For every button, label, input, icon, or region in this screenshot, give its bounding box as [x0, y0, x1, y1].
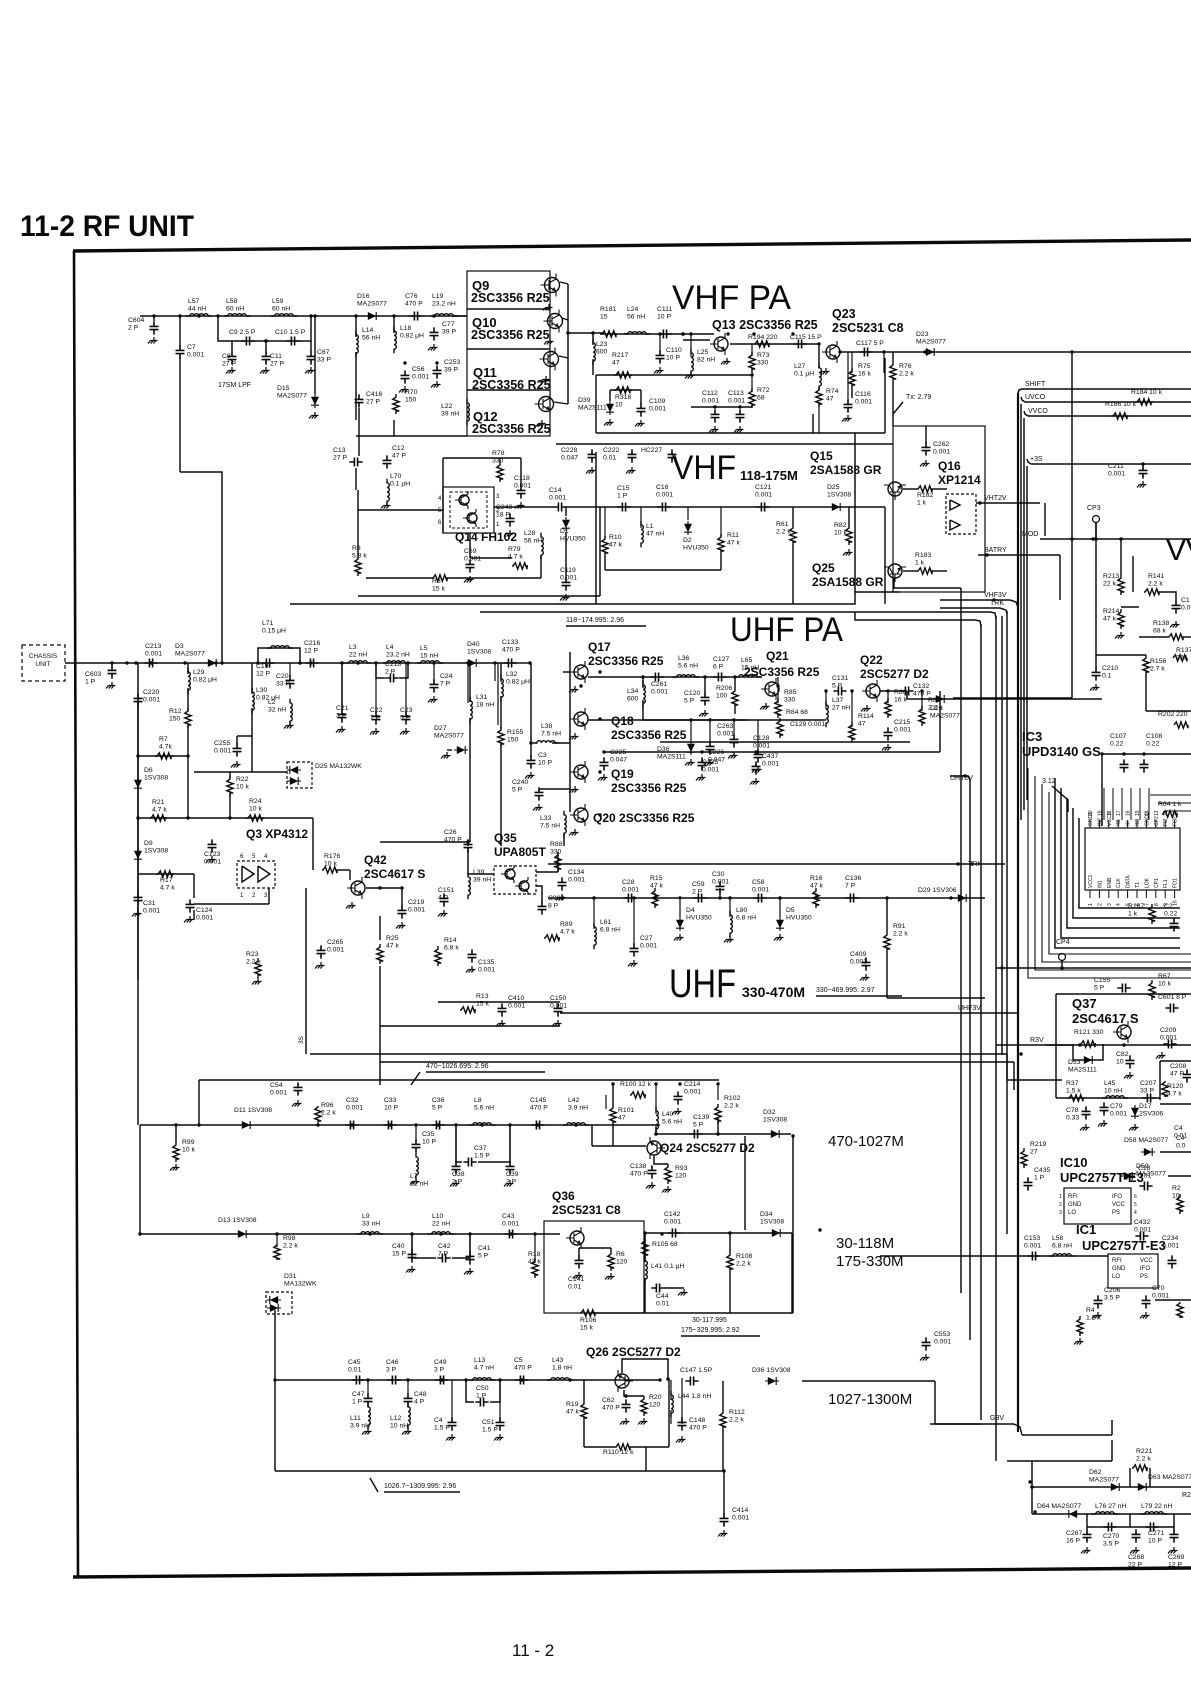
- svg-text:3: 3: [1107, 903, 1113, 906]
- wire R121 D53 loop: [1073, 1044, 1103, 1060]
- svg-text:2SC4617 S: 2SC4617 S: [364, 867, 425, 881]
- osc block box: [893, 426, 985, 592]
- svg-text:CP1: CP1: [1154, 878, 1160, 888]
- svg-text:UVCO: UVCO: [1025, 394, 1046, 401]
- svg-text:R20120: R20120: [649, 1394, 662, 1409]
- IC3 pin 3 ENB: [1108, 890, 1110, 898]
- wire IC3 bus loop 2: [1073, 808, 1180, 918]
- svg-text:Q37: Q37: [1072, 996, 1097, 1011]
- svg-text:2SC4617 S: 2SC4617 S: [1072, 1011, 1139, 1026]
- svg-text:C1420.001: C1420.001: [664, 1211, 681, 1226]
- wire D15 stub: [314, 316, 316, 394]
- svg-text:C11010 P: C11010 P: [666, 347, 682, 362]
- svg-text:Q36: Q36: [552, 1189, 575, 1203]
- svg-text:C1340.001: C1340.001: [568, 869, 585, 884]
- wire batry drop: [1059, 555, 1061, 600]
- wire Q26 out: [802, 1380, 935, 1382]
- resistor R2b: [1177, 1302, 1183, 1318]
- svg-text:L79 22 nH: L79 22 nH: [1141, 1503, 1172, 1510]
- wire 3S drop: [305, 888, 307, 1054]
- svg-text:BATRY: BATRY: [984, 547, 1007, 554]
- svg-text:330-470M: 330-470M: [742, 984, 805, 1000]
- svg-text:3.12: 3.12: [1042, 778, 1056, 785]
- svg-text:C1530.001: C1530.001: [1024, 1235, 1041, 1250]
- svg-text:R64 1 k: R64 1 k: [1158, 801, 1182, 808]
- wire section divider: [290, 592, 900, 604]
- svg-text:R1547 k: R1547 k: [650, 875, 663, 890]
- svg-text:C1190.001: C1190.001: [560, 567, 577, 582]
- svg-text:Q17: Q17: [588, 640, 611, 654]
- svg-text:L34600: L34600: [627, 688, 639, 703]
- svg-text:D36 1SV308: D36 1SV308: [752, 1367, 791, 1374]
- svg-text:2SC5231 C8: 2SC5231 C8: [832, 321, 904, 335]
- transistor Q14a: [455, 491, 469, 509]
- transistor Q24: [647, 1137, 665, 1159]
- wire CP4 stub: [1061, 961, 1063, 968]
- svg-text:D63 MA2S077: D63 MA2S077: [1148, 1474, 1191, 1481]
- svg-text:30-117.995: 30-117.995: [692, 1317, 727, 1324]
- svg-text:R1082.2 k: R1082.2 k: [736, 1253, 752, 1268]
- svg-text:C180.01: C180.01: [1138, 1165, 1151, 1180]
- svg-text:2: 2: [1059, 1202, 1062, 1208]
- wire R214 tap: [1121, 606, 1139, 608]
- svg-text:GND: GND: [1068, 1202, 1082, 1208]
- wire L29 col: [187, 663, 189, 674]
- wire Q17 feed col: [569, 652, 571, 812]
- svg-text:C2340.001: C2340.001: [1162, 1235, 1179, 1250]
- svg-text:VHF PA: VHF PA: [672, 279, 791, 317]
- wire C9/C10 branch: [218, 316, 311, 341]
- svg-text:C2250.047: C2250.047: [610, 749, 627, 764]
- wire IC3 top feeds: [1103, 788, 1105, 820]
- wire Q23 out: [840, 351, 1191, 353]
- svg-text:RFI: RFI: [1068, 1194, 1078, 1200]
- wire R112 col: [722, 1381, 724, 1410]
- svg-text:C9 2.5 P: C9 2.5 P: [229, 329, 256, 336]
- IC3 pin 10 FO1: [1174, 890, 1176, 898]
- svg-text:10: 10: [1173, 900, 1179, 906]
- svg-text:2SC3356 R25: 2SC3356 R25: [472, 378, 551, 392]
- svg-text:118-175M: 118-175M: [740, 468, 798, 483]
- svg-text:C4370.001: C4370.001: [762, 753, 779, 768]
- wire L27 col: [818, 344, 820, 368]
- wire C124 rail: [194, 903, 269, 905]
- wire Q35 bottom rail: [438, 1001, 560, 1003]
- svg-text:R70150: R70150: [405, 389, 418, 404]
- svg-text:VCC1: VCC1: [1088, 874, 1094, 888]
- wire R74 rail: [812, 414, 814, 433]
- resistor R131b: [1173, 655, 1187, 661]
- svg-text:R1204.7 k: R1204.7 k: [1167, 1083, 1183, 1098]
- svg-text:C10.0: C10.0: [1181, 597, 1191, 612]
- wire L31 col: [469, 663, 471, 702]
- svg-text:XP1214: XP1214: [938, 473, 981, 487]
- wire Q26 emitter: [624, 1390, 644, 1396]
- transistor Q14b: [463, 509, 477, 527]
- svg-text:C1130.001: C1130.001: [728, 390, 745, 405]
- svg-text:2SA1588 GR: 2SA1588 GR: [812, 575, 884, 589]
- svg-text:1026.7~1309.995: 2.96: 1026.7~1309.995: 2.96: [384, 1483, 456, 1490]
- driver block separator 1: [467, 308, 550, 310]
- svg-text:2SC3356 R25: 2SC3356 R25: [588, 654, 664, 668]
- svg-text:3S: 3S: [298, 1035, 305, 1044]
- svg-text:C450.01: C450.01: [348, 1359, 361, 1374]
- svg-text:R121 330: R121 330: [1074, 1029, 1104, 1036]
- wire mid rail: [596, 374, 752, 376]
- wire R17 rail: [138, 873, 194, 875]
- svg-text:2SC5277 D2: 2SC5277 D2: [860, 667, 929, 681]
- wire Q join to VHF bus: [568, 332, 604, 334]
- wire D13 row: [140, 1233, 560, 1235]
- svg-text:C1120.001: C1120.001: [702, 390, 719, 405]
- svg-text:Q3 XP4312: Q3 XP4312: [246, 827, 308, 841]
- wire C262 stub: [925, 426, 927, 443]
- svg-text:R2410 k: R2410 k: [249, 798, 262, 813]
- svg-text:FI2: FI2: [1163, 819, 1169, 826]
- svg-text:2SC3356 R25: 2SC3356 R25: [611, 728, 687, 742]
- wire chassis bus: [65, 662, 516, 664]
- svg-text:UNIT: UNIT: [35, 661, 50, 668]
- svg-text:C2190.001: C2190.001: [408, 899, 425, 914]
- wire C220 col lower: [137, 706, 139, 980]
- wire R110 rail: [584, 1446, 614, 1448]
- svg-text:IN2: IN2: [1097, 818, 1103, 826]
- wire Q17-Q20 feed: [563, 671, 570, 673]
- transistor Q26: [615, 1370, 633, 1392]
- wire UHF drive bus: [588, 676, 762, 678]
- transistor Q22: [862, 680, 880, 702]
- svg-text:IN1: IN1: [1097, 880, 1103, 888]
- chassis unit dashed box: [22, 645, 65, 681]
- svg-text:2: 2: [1097, 903, 1103, 906]
- svg-text:11 - 2: 11 - 2: [512, 1641, 554, 1660]
- svg-text:R84 68: R84 68: [786, 709, 808, 716]
- svg-text:UPC2757T-E3: UPC2757T-E3: [1060, 1170, 1144, 1185]
- schematic frame left border: [74, 251, 78, 1577]
- transistor Q42: [347, 877, 365, 899]
- wire Q26 collector loop: [622, 1359, 668, 1379]
- wire R22 bus: [194, 771, 287, 773]
- svg-text:C117 5 P: C117 5 P: [856, 340, 884, 347]
- svg-text:L44 1.8 nH: L44 1.8 nH: [678, 1393, 711, 1400]
- svg-text:R2212.2 k: R2212.2 k: [1136, 1448, 1152, 1463]
- wire trunk thick: [1017, 393, 1019, 1432]
- driver block separator 3: [467, 389, 550, 391]
- svg-text:3: 3: [1059, 1210, 1062, 1216]
- svg-text:Q23: Q23: [832, 307, 856, 321]
- wire C208 box: [1159, 1061, 1161, 1100]
- svg-text:C1327 P: C1327 P: [333, 447, 347, 462]
- wire R318 rail: [610, 389, 641, 391]
- transistor Q36: [566, 1227, 584, 1249]
- svg-text:D29 1SV306: D29 1SV306: [918, 887, 957, 894]
- ground R23: [252, 978, 262, 985]
- junction dots group: [152, 314, 155, 317]
- wire osc bottom: [605, 569, 721, 571]
- wire R37 row feed: [1007, 1079, 1062, 1081]
- wire band top rail: [199, 1079, 719, 1081]
- transistor Q12: [535, 393, 554, 416]
- wire cap row2: [1130, 1526, 1174, 1528]
- svg-text:C1210.001: C1210.001: [755, 484, 772, 499]
- svg-text:R88330: R88330: [550, 841, 563, 856]
- svg-text:C4090.001: C4090.001: [850, 951, 867, 966]
- svg-text:Q20 2SC3356 R25: Q20 2SC3356 R25: [593, 811, 695, 825]
- wire R8 rail: [366, 577, 432, 579]
- svg-text:330~469.995: 2.97: 330~469.995: 2.97: [816, 987, 875, 994]
- wire Q13 collector: [730, 343, 820, 345]
- svg-text:C2150.001: C2150.001: [894, 719, 911, 734]
- wire IFO rail: [1007, 1460, 1112, 1462]
- wire D11 row: [140, 1124, 660, 1126]
- wire Q35 out: [536, 871, 558, 873]
- transistor Q37: [1113, 1021, 1131, 1043]
- IC3 pin 9 FL1: [1164, 890, 1166, 898]
- svg-text:1: 1: [1059, 1194, 1062, 1200]
- svg-text:C1160.001: C1160.001: [855, 391, 872, 406]
- wire Q14 bottom rail: [358, 595, 600, 597]
- wire Q24 base: [592, 1145, 646, 1147]
- svg-text:C145470 P: C145470 P: [530, 1097, 548, 1112]
- ic Q14 box: [443, 487, 494, 533]
- svg-text:T1: T1: [1135, 882, 1141, 888]
- wire extra stub rails: [690, 406, 692, 408]
- svg-text:L23600: L23600: [596, 341, 608, 356]
- svg-text:C440.01: C440.01: [656, 1293, 669, 1308]
- svg-text:C2090.001: C2090.001: [1160, 1027, 1177, 1042]
- svg-text:L76 27 nH: L76 27 nH: [1095, 1503, 1126, 1510]
- svg-text:D25 MA132WK: D25 MA132WK: [315, 763, 362, 770]
- svg-text:CHASSIS: CHASSIS: [29, 653, 58, 660]
- svg-text:C147 1.5P: C147 1.5P: [680, 1367, 713, 1374]
- svg-text:ENB: ENB: [1107, 877, 1113, 888]
- ic Q35 dashed box: [494, 866, 536, 894]
- svg-text:1: 1: [1088, 903, 1094, 906]
- wire C37 loop: [456, 1125, 462, 1162]
- ic IC3 box: [1085, 828, 1180, 890]
- svg-text:R8616 k: R8616 k: [894, 689, 907, 704]
- wire trunk v2: [969, 780, 971, 1340]
- svg-text:R6710 k: R6710 k: [1158, 973, 1171, 988]
- wire trunk v3: [980, 624, 982, 1420]
- svg-text:2SC3356 R25: 2SC3356 R25: [611, 781, 687, 795]
- svg-text:CLK: CLK: [1116, 878, 1122, 888]
- transistor Q15: [884, 482, 906, 500]
- hybrid Q16 box: [946, 494, 976, 534]
- wire UHF mix bus: [548, 897, 985, 899]
- wire C604 stub: [153, 316, 155, 321]
- wire trunk corner d1: [990, 612, 996, 618]
- IC3 pin 15 XO: [1136, 820, 1138, 828]
- svg-text:C4140.001: C4140.001: [732, 1507, 749, 1522]
- svg-text:C6733 P: C6733 P: [317, 349, 331, 364]
- wire C3 col: [516, 662, 531, 664]
- svg-text:LOK: LOK: [1144, 877, 1150, 888]
- svg-text:Q42: Q42: [364, 853, 387, 867]
- wire R156 out: [1146, 710, 1191, 712]
- svg-text:2SC3356 R25: 2SC3356 R25: [471, 291, 550, 305]
- wire Q36 out: [644, 1232, 730, 1234]
- svg-text:8: 8: [1154, 903, 1160, 906]
- wire vht2v drop: [1044, 503, 1046, 536]
- wire bus to Q9 box: [393, 420, 395, 436]
- junction: [264, 339, 268, 343]
- svg-text:Tx: 2.79: Tx: 2.79: [906, 394, 931, 401]
- svg-text:C3310 P: C3310 P: [384, 1097, 398, 1112]
- transistor Q35b: [515, 877, 529, 895]
- wire PA lower rail: [596, 432, 885, 434]
- wire R21 rail: [138, 817, 313, 819]
- wire right edge stub1: [1160, 1151, 1191, 1153]
- wire band1 bottom: [592, 1312, 793, 1314]
- svg-text:C7739 P: C7739 P: [442, 321, 456, 336]
- svg-text:CP2: CP2: [1154, 816, 1160, 826]
- svg-text:R2: R2: [1182, 1492, 1191, 1499]
- IC3 pin 12 FI2: [1164, 820, 1166, 828]
- wire trunk v5: [1006, 611, 1008, 1234]
- Q36 box: [544, 1221, 644, 1313]
- svg-text:C1240.001: C1240.001: [196, 907, 213, 922]
- wire Q42 col: [379, 916, 381, 940]
- svg-text:CP4: CP4: [1056, 939, 1070, 946]
- wire input bus: [140, 315, 466, 317]
- svg-text:HC227: HC227: [641, 447, 662, 454]
- wire ic3 feed v1: [1020, 404, 1022, 820]
- svg-text:C2260.047: C2260.047: [708, 749, 725, 764]
- svg-text:C2610.001: C2610.001: [651, 681, 668, 696]
- wire q35 long rail: [310, 1053, 1007, 1055]
- wire IC3 right feeds: [1150, 794, 1191, 796]
- IC3 pin 13 CP2: [1155, 820, 1157, 828]
- VHF osc box: [595, 452, 597, 604]
- wire IC3 bus loop 1: [1079, 818, 1180, 908]
- svg-text:Q19: Q19: [611, 767, 634, 781]
- wire UHF PA bottom: [604, 751, 940, 753]
- svg-text:C1912 P: C1912 P: [256, 663, 270, 678]
- wire 3s corner: [1027, 459, 1031, 464]
- svg-text:SHIFT: SHIFT: [1025, 381, 1046, 388]
- svg-text:VHF3V: VHF3V: [984, 592, 1007, 599]
- svg-text:R1562.7 k: R1562.7 k: [1150, 658, 1166, 673]
- svg-text:LO: LO: [1112, 1274, 1120, 1280]
- svg-text:R184 10 k: R184 10 k: [1131, 389, 1163, 396]
- svg-text:5: 5: [1134, 1202, 1137, 1208]
- transistor Q23: [822, 341, 840, 363]
- net TRK wire: [548, 863, 1005, 865]
- ic Q14 inner dashed: [450, 492, 487, 528]
- IC3 pin 19 IN2: [1098, 820, 1100, 828]
- svg-text:R73330: R73330: [757, 352, 770, 367]
- IC3 pin 5 DATA: [1127, 890, 1129, 898]
- svg-text:C148470 P: C148470 P: [689, 1417, 707, 1432]
- op-amp Q3a: [242, 866, 254, 882]
- wire trunk corner trk: [1000, 608, 1007, 614]
- wire cap row: [1087, 1526, 1130, 1528]
- wire Q22 out: [880, 690, 907, 692]
- wire D23 junction: [1070, 350, 1074, 354]
- IC3 pin 1 VCC1: [1089, 890, 1091, 898]
- wire divider2: [480, 611, 990, 613]
- svg-text:CP3: CP3: [1087, 505, 1101, 512]
- svg-text:VCC: VCC: [1112, 1202, 1125, 1208]
- wire MOD branch: [1071, 539, 1073, 698]
- svg-text:IC10: IC10: [1060, 1155, 1087, 1170]
- IC3 pin 11 FO2: [1174, 820, 1176, 828]
- wire IC3 bus loop 5: [1055, 778, 1180, 948]
- wire R37 rail: [1056, 1097, 1160, 1099]
- svg-text:C2280.047: C2280.047: [561, 447, 578, 462]
- wire Tx arrow: [893, 402, 903, 414]
- transistor Q19: [570, 761, 588, 783]
- svg-text:18: 18: [1107, 810, 1113, 816]
- transistor Q20: [570, 804, 588, 826]
- svg-text:C1090.001: C1090.001: [649, 398, 666, 413]
- wire IC3 bus loop 4: [1061, 788, 1180, 938]
- wire VHF PA bus: [600, 333, 714, 335]
- wire R9 rail: [357, 490, 359, 556]
- wire L41 col: [644, 1233, 646, 1262]
- wire r61 stub: [792, 507, 794, 525]
- svg-text:UPD3140 GS: UPD3140 GS: [1022, 744, 1101, 759]
- wire left feed: [179, 316, 181, 346]
- wire D1 stub: [565, 507, 567, 516]
- wire IC3 vcc rail: [1102, 753, 1191, 755]
- svg-text:R1122.2 k: R1122.2 k: [729, 1409, 745, 1424]
- svg-text:19: 19: [1097, 810, 1103, 816]
- svg-text:C4320.001: C4320.001: [1134, 1219, 1151, 1234]
- svg-text:2SA1588 GR: 2SA1588 GR: [810, 463, 882, 477]
- svg-text:20: 20: [1088, 810, 1094, 816]
- svg-text:4: 4: [1116, 903, 1122, 906]
- wire D62 row: [1032, 1486, 1191, 1488]
- svg-text:+3S: +3S: [1030, 456, 1043, 463]
- wire Q13 base: [683, 339, 710, 341]
- svg-text:C2063.5 P: C2063.5 P: [1104, 1287, 1120, 1302]
- wire vvco corner: [1024, 411, 1028, 416]
- transistor Q11: [540, 348, 559, 371]
- junction Q13 base: [681, 332, 685, 336]
- svg-text:R93120: R93120: [675, 1165, 688, 1180]
- wire callout arrow: [411, 1072, 420, 1085]
- svg-text:118~174.995: 2.96: 118~174.995: 2.96: [566, 617, 624, 624]
- svg-text:PS: PS: [1140, 1274, 1148, 1280]
- wire shift corner: [1018, 389, 1022, 393]
- svg-text:XI: XI: [1126, 821, 1132, 826]
- svg-text:IC1: IC1: [1076, 1222, 1096, 1237]
- wire L33 tail: [563, 834, 565, 846]
- svg-text:C5530.001: C5530.001: [934, 1331, 951, 1346]
- wire trunk v4: [995, 616, 997, 1461]
- wire C414 stub: [723, 1471, 725, 1514]
- svg-text:R202 220: R202 220: [1158, 711, 1188, 718]
- wire collector join: [567, 284, 569, 404]
- svg-text:G3V: G3V: [990, 1415, 1004, 1422]
- wire CP4 rail ext: [1150, 967, 1191, 969]
- IC3 pin 14 GND2: [1145, 820, 1147, 828]
- wire IC1 in: [880, 1255, 1108, 1257]
- driver block outer box: [467, 271, 550, 436]
- wire loop bottom: [643, 719, 748, 721]
- svg-text:Q18: Q18: [611, 714, 634, 728]
- svg-text:C115 15 P: C115 15 P: [790, 334, 822, 341]
- wire R79 rail: [470, 557, 512, 559]
- transistor Q21: [761, 678, 779, 700]
- svg-text:Q15: Q15: [810, 449, 833, 463]
- svg-text:470-1027M: 470-1027M: [828, 1133, 904, 1150]
- IC3 pin 18 VCC2: [1108, 820, 1110, 828]
- wire C21 stub: [341, 663, 343, 710]
- svg-text:C1180.001: C1180.001: [514, 475, 531, 490]
